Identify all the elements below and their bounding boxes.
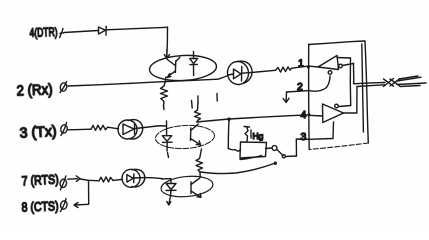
node pin 1 entry	[307, 66, 310, 69]
wire pin 4 into box	[309, 114, 323, 117]
wire inner to U4B	[339, 106, 351, 107]
lead stub U1 right	[216, 94, 218, 102]
receiver triangle U4A	[309, 56, 343, 75]
LED indicator D4	[118, 120, 143, 140]
terminal pin 7 RTS	[59, 176, 67, 190]
wire pin 4 run	[197, 115, 309, 122]
svg-text:7 (RTS): 7 (RTS)	[21, 172, 59, 189]
svg-text:1: 1	[298, 58, 304, 70]
isolator box right edge overdraw	[362, 44, 364, 132]
LED indicator D5	[122, 169, 145, 187]
driver triangle U4B	[323, 104, 344, 123]
wire relay drop	[227, 119, 230, 148]
svg-text:Hg: Hg	[253, 131, 264, 141]
resistor R3	[91, 125, 108, 130]
wire	[292, 66, 309, 68]
node switch curve dot	[274, 162, 277, 165]
wire U4A input top	[337, 57, 351, 60]
node junction relay tap	[227, 118, 230, 121]
optocoupler U2	[155, 121, 215, 158]
isolator module U4 box	[309, 41, 369, 150]
wire	[106, 27, 167, 30]
svg-text:4(DTR): 4(DTR)	[29, 25, 57, 40]
wire pin 2 to U4 bubble	[309, 76, 330, 91]
wire	[68, 128, 92, 131]
label Hg	[251, 130, 264, 141]
twisted pair lines	[354, 83, 385, 87]
wire	[166, 27, 169, 57]
wire inner vertical 1	[349, 58, 351, 106]
wire U4B output	[344, 112, 357, 114]
optocoupler U3	[160, 174, 214, 205]
LED indicator D2	[218, 60, 253, 86]
arrow RTS in	[68, 176, 80, 182]
optocoupler U1	[149, 50, 217, 82]
wire curve to R5	[201, 164, 275, 174]
label 8 (CTS)	[21, 198, 59, 214]
wire inner vertical 2	[353, 64, 355, 84]
wire inner vertical 3	[356, 87, 358, 114]
resistor R5	[196, 149, 203, 178]
label 7 (RTS)	[21, 172, 59, 189]
resistor R6	[99, 177, 113, 182]
lead stub U1 diode	[191, 101, 194, 109]
resistor R4	[195, 96, 201, 122]
terminal pin 4 DTR	[60, 29, 64, 38]
wire	[113, 179, 123, 180]
wire	[68, 79, 218, 86]
label 3 (Tx)	[19, 124, 57, 142]
twisted pair crossover XX	[384, 79, 400, 87]
resistor R2	[276, 67, 292, 72]
wire	[140, 126, 157, 128]
wire	[108, 127, 119, 129]
wire switch to pin 3	[296, 139, 309, 156]
node junction U1 emitter	[164, 77, 167, 82]
svg-text:8 (CTS): 8 (CTS)	[21, 198, 59, 214]
wire	[253, 70, 276, 72]
wire pin 3 into box	[309, 122, 334, 139]
wire CTS drop	[88, 180, 90, 204]
wire	[64, 31, 98, 33]
resistor R1	[161, 83, 168, 110]
wire	[144, 178, 162, 179]
arrow to ground pin 2	[283, 92, 289, 103]
label 2 (Rx)	[16, 82, 53, 99]
twisted pair right	[397, 76, 426, 87]
relay K1 body	[240, 142, 267, 160]
wire coil hook	[228, 149, 240, 152]
wire pin 2	[287, 91, 309, 92]
label 4 (DTR)	[29, 25, 57, 40]
wire CTS arrow	[74, 203, 88, 208]
svg-text:3: 3	[301, 131, 307, 143]
terminal pin 3 Tx	[60, 123, 68, 136]
terminal pin 8 CTS	[60, 199, 68, 212]
wire U4A bubble lead	[342, 64, 353, 66]
switch S1	[266, 146, 297, 158]
diode D1	[99, 26, 107, 35]
terminal pin 2 Rx	[59, 82, 67, 93]
relay coil lead	[244, 127, 250, 142]
node junction RTS/CTS	[80, 179, 99, 181]
node pin 4 entry	[308, 113, 311, 116]
svg-text:2 (Rx): 2 (Rx)	[16, 82, 53, 99]
svg-text:3 (Tx): 3 (Tx)	[19, 124, 57, 142]
